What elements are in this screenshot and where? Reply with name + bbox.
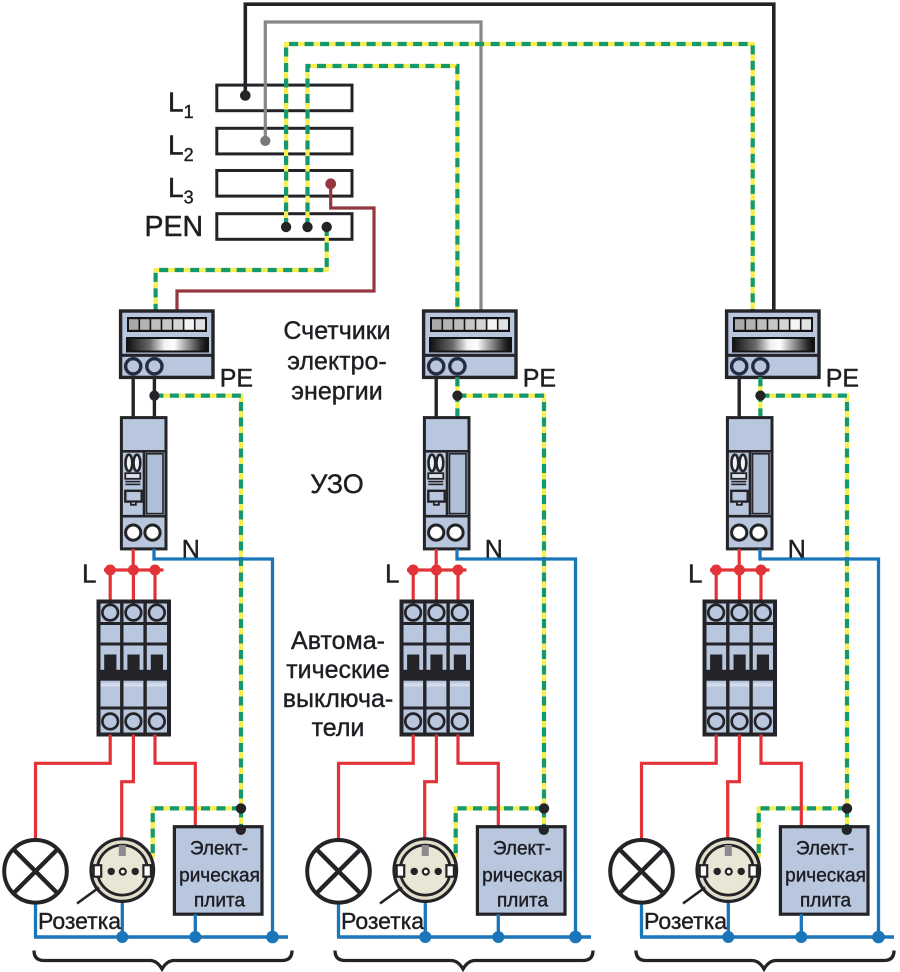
wire meter 1 to UZO 1 (right, neutral) bbox=[153, 377, 156, 419]
junction L bus dot 1 group 3 bbox=[711, 565, 722, 576]
group brace 1 (apartment feeder bracket) bbox=[34, 951, 292, 970]
junction L bus dot 1 group 2 bbox=[408, 565, 419, 576]
UZO 2 (residual current device) bbox=[424, 418, 469, 549]
wire PE drop to socket 1 bbox=[153, 808, 241, 858]
junction PE branch group 1 bbox=[236, 803, 246, 813]
svg-text:Розетка: Розетка bbox=[341, 908, 424, 934]
wire UZO 2 to L bus (red) bbox=[435, 549, 438, 570]
svg-text:N: N bbox=[788, 536, 806, 564]
bus bar L3 bbox=[217, 171, 352, 197]
svg-text:L: L bbox=[385, 559, 399, 589]
wire breaker 2 pole 1 to lamp 2 bbox=[339, 735, 414, 842]
wire breaker 1 pole 3 to stove 1 bbox=[155, 735, 195, 829]
meter 2 (Счетчик электроэнергии) bbox=[424, 311, 516, 377]
N bottom bus group 1 bbox=[34, 935, 288, 938]
junction N bus at stove 1 bbox=[189, 931, 201, 943]
junction N bus at UZO drop 1 bbox=[266, 931, 279, 944]
wire stove 1 to N bus bbox=[194, 914, 197, 937]
svg-text:PE: PE bbox=[523, 365, 556, 393]
wire L bus to breaker 2 pole 2 bbox=[435, 570, 438, 602]
wire PE tap from meter 3 bbox=[760, 396, 847, 809]
group brace 2 (apartment feeder bracket) bbox=[335, 951, 593, 970]
N bottom bus group 2 bbox=[337, 935, 591, 938]
wire PE drop to stove 1 bbox=[239, 808, 243, 829]
wire PEN to meter 2 (PE yellow-green) bbox=[308, 66, 458, 312]
L distribution bus group 1 bbox=[104, 568, 164, 571]
electric stove 1 (Электрическая плита) bbox=[174, 827, 262, 915]
pointer line to socket label 1 bbox=[77, 888, 99, 904]
socket 3 (Розетка) bbox=[697, 839, 760, 902]
lamp 2 (light fixture) bbox=[307, 840, 370, 903]
junction N bus at socket 3 bbox=[722, 931, 734, 943]
junction PE tap 1 bbox=[149, 391, 159, 401]
junction L bus dot 3 group 3 bbox=[756, 565, 767, 576]
svg-text:N: N bbox=[182, 536, 200, 564]
junction L bus dot 2 group 3 bbox=[734, 565, 745, 576]
lamp 1 (light fixture) bbox=[4, 840, 67, 903]
wire PE tap from meter 1 bbox=[154, 396, 241, 809]
wire meter 3 to UZO 3 (left, phase) bbox=[738, 377, 741, 419]
svg-text:PEN: PEN bbox=[145, 211, 204, 243]
wire breaker 1 pole 2 to socket 1 bbox=[122, 735, 134, 842]
wire socket 1 to N bus bbox=[121, 900, 124, 937]
wire L3 to meter 1 (dark red phase) bbox=[177, 184, 374, 312]
junction L2 tap bbox=[260, 136, 270, 146]
junction L bus dot 3 group 1 bbox=[150, 565, 161, 576]
L distribution bus group 3 bbox=[710, 568, 770, 571]
wire L bus to breaker 2 pole 1 bbox=[412, 570, 415, 602]
svg-text:L: L bbox=[688, 559, 702, 589]
junction L1 tap bbox=[240, 90, 251, 101]
circuit breaker 3 (three-pole automatic switch) bbox=[705, 602, 776, 735]
wire L bus to breaker 3 pole 2 bbox=[738, 570, 741, 602]
junction PEN tap 2 bbox=[302, 222, 312, 232]
wire PE drop to stove 2 bbox=[542, 808, 546, 829]
wire meter 2 to UZO 2 (left, phase) bbox=[435, 377, 438, 419]
circuit breaker 2 (three-pole automatic switch) bbox=[402, 602, 473, 735]
wire L bus to breaker 1 pole 1 bbox=[109, 570, 112, 602]
junction N bus at socket 1 bbox=[116, 931, 128, 943]
junction PEN tap 1 bbox=[281, 222, 291, 232]
wire breaker 2 pole 3 to stove 2 bbox=[458, 735, 498, 829]
junction PE tap 3 bbox=[755, 391, 765, 401]
lamp 3 (light fixture) bbox=[610, 840, 673, 903]
wire UZO 2 to N line (blue neutral) bbox=[457, 549, 576, 937]
wire PE tap from meter 2 bbox=[457, 396, 544, 809]
wire lamp 3 to N bus bbox=[640, 901, 643, 937]
wire UZO 3 to N line (blue neutral) bbox=[760, 549, 879, 937]
svg-text:УЗО: УЗО bbox=[310, 469, 364, 499]
wire PE drop to stove 3 bbox=[845, 808, 849, 829]
wire breaker 3 pole 2 to socket 3 bbox=[728, 735, 740, 842]
wire meter 3 to UZO 3 (right, PEN yellow-green) bbox=[758, 377, 762, 419]
UZO 3 (residual current device) bbox=[727, 418, 772, 549]
junction PE at stove 3 bbox=[842, 825, 852, 835]
wire meter 1 to UZO 1 (left, phase) bbox=[131, 377, 134, 419]
wire breaker 2 pole 2 to socket 2 bbox=[425, 735, 437, 842]
wire L bus to breaker 3 pole 1 bbox=[715, 570, 718, 602]
junction N bus at UZO drop 2 bbox=[569, 931, 582, 944]
junction N bus at socket 2 bbox=[419, 931, 431, 943]
junction PE at stove 1 bbox=[236, 825, 246, 835]
group brace 3 (apartment feeder bracket) bbox=[636, 951, 894, 970]
junction L bus dot 1 group 1 bbox=[105, 565, 116, 576]
socket 1 (Розетка) bbox=[91, 839, 154, 902]
svg-text:N: N bbox=[485, 536, 503, 564]
junction L bus dot 3 group 2 bbox=[453, 565, 464, 576]
wire lamp 2 to N bus bbox=[337, 901, 340, 937]
meter 1 (Счетчик электроэнергии) bbox=[121, 311, 213, 377]
junction L bus dot 2 group 1 bbox=[128, 565, 139, 576]
wire UZO 1 to N line (blue neutral) bbox=[154, 549, 273, 937]
svg-text:L: L bbox=[82, 559, 96, 589]
wire PEN to meter 3 (PE yellow-green) bbox=[286, 44, 753, 312]
junction PE branch group 2 bbox=[539, 803, 549, 813]
electric stove 2 (Электрическая плита) bbox=[477, 827, 565, 915]
junction PE branch group 3 bbox=[842, 803, 852, 813]
bus bar PEN bbox=[217, 214, 352, 240]
wire L2 to meter 2 (gray phase) bbox=[265, 22, 481, 312]
svg-text:Розетка: Розетка bbox=[38, 908, 121, 934]
UZO 1 (residual current device) bbox=[121, 418, 166, 549]
wire breaker 3 pole 1 to lamp 3 bbox=[642, 735, 717, 842]
wire stove 3 to N bus bbox=[800, 914, 803, 937]
svg-text:Розетка: Розетка bbox=[644, 908, 727, 934]
bus bar L1 bbox=[217, 85, 352, 111]
bus bar L2 bbox=[217, 128, 352, 154]
wire L1 to meter 3 (black phase) bbox=[245, 4, 774, 311]
wire socket 2 to N bus bbox=[424, 900, 427, 937]
wire socket 3 to N bus bbox=[727, 900, 730, 937]
electric stove 3 (Электрическая плита) bbox=[780, 827, 868, 915]
junction PEN tap 3 bbox=[322, 222, 332, 232]
svg-text:Счетчикиэлектро-энергии: Счетчикиэлектро-энергии bbox=[283, 317, 390, 406]
L distribution bus group 2 bbox=[407, 568, 467, 571]
junction PE at stove 2 bbox=[539, 825, 549, 835]
wire PEN to meter 1 (PE yellow-green) bbox=[156, 227, 327, 312]
socket 2 (Розетка) bbox=[394, 839, 457, 902]
wire PE drop to socket 3 bbox=[759, 808, 847, 858]
junction N bus at stove 3 bbox=[795, 931, 807, 943]
wire UZO 3 to L bus (red) bbox=[738, 549, 741, 570]
junction N bus at stove 2 bbox=[492, 931, 504, 943]
wire PE drop to socket 2 bbox=[456, 808, 544, 858]
junction L3 tap bbox=[325, 178, 336, 189]
wire L bus to breaker 3 pole 3 bbox=[759, 570, 762, 602]
wire L bus to breaker 2 pole 3 bbox=[456, 570, 459, 602]
svg-text:PE: PE bbox=[220, 365, 253, 393]
wire breaker 3 pole 3 to stove 3 bbox=[761, 735, 801, 829]
wire stove 2 to N bus bbox=[497, 914, 500, 937]
N bottom bus group 3 bbox=[640, 935, 894, 938]
wire L bus to breaker 1 pole 2 bbox=[132, 570, 135, 602]
wire meter 2 to UZO 2 (right, PEN yellow-green) bbox=[455, 377, 459, 419]
svg-text:PE: PE bbox=[826, 365, 859, 393]
junction N bus at UZO drop 3 bbox=[872, 931, 885, 944]
wire breaker 1 pole 1 to lamp 1 bbox=[36, 735, 111, 842]
pointer line to socket label 3 bbox=[683, 888, 705, 904]
pointer line to socket label 2 bbox=[380, 888, 402, 904]
wire lamp 1 to N bus bbox=[34, 901, 37, 937]
junction PE tap 2 bbox=[452, 391, 462, 401]
meter 3 (Счетчик электроэнергии) bbox=[727, 311, 819, 377]
circuit breaker 1 (three-pole automatic switch) bbox=[99, 602, 170, 735]
wire UZO 1 to L bus (red) bbox=[132, 549, 135, 570]
junction L bus dot 2 group 2 bbox=[431, 565, 442, 576]
wire L bus to breaker 1 pole 3 bbox=[153, 570, 156, 602]
